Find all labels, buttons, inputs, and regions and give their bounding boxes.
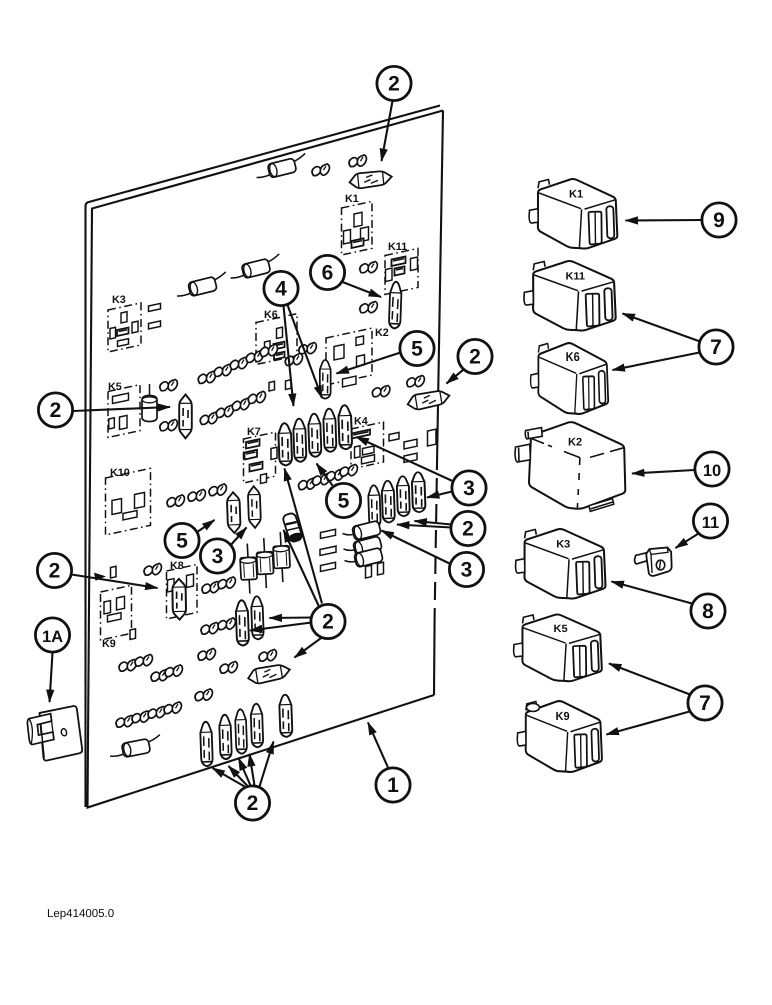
arrow item5 left to festoon bulb (197, 520, 215, 533)
svg-text:K3: K3 (556, 539, 570, 551)
svg-text:2: 2 (49, 560, 61, 583)
relay socket outline K4 on board (351, 416, 384, 470)
arrow item2 mid to long bulb row1-1 (285, 469, 323, 604)
relay K11 (item 7) (524, 261, 616, 331)
relay socket outline K11 on board (385, 241, 418, 295)
arrow item8 to relay K3 (612, 582, 693, 604)
svg-text:4: 4 (275, 278, 287, 301)
callout 2 at (328,621.5) (311, 604, 345, 638)
callout 9 at (719,220) (702, 203, 736, 237)
arrow item7b to relay K9 (607, 712, 690, 735)
svg-text:2: 2 (388, 73, 400, 96)
svg-text:K5: K5 (554, 624, 568, 636)
callout 7 at (716,347) (699, 330, 733, 364)
svg-text:1A: 1A (42, 628, 63, 646)
svg-text:5: 5 (411, 338, 423, 361)
festoon bulb row2-3 (397, 476, 410, 516)
callout 3 at (469,488) (452, 471, 486, 505)
arrow item2 bottom to bulb4 (250, 754, 255, 786)
callout 5 at (182,540.5) (165, 523, 199, 557)
arrow item2 left-b to K8 bulb (72, 575, 158, 589)
callout 2 at (55.5,410) (38, 393, 72, 427)
mid arrowhead on item2 left-b line (94, 573, 106, 581)
callout 7 at (705,703) (688, 686, 722, 720)
mounting clip (item 1A) (26, 706, 82, 762)
arrow item1A to clip (50, 653, 53, 703)
arrow item10 to relay K2 (632, 470, 695, 474)
relay K2 (item 10) (515, 422, 625, 511)
clip (item 11) (635, 548, 672, 576)
arrow item2 right-b to bulb row2-3 (397, 525, 452, 528)
arrow item2 left to festoon bulb (73, 407, 170, 411)
arrow item9 to relay K1 (626, 219, 702, 222)
svg-text:7: 7 (699, 692, 711, 715)
torpedo fuse right side (item 2 target) (406, 388, 451, 411)
festoon bulb pair lower-2 (251, 596, 264, 640)
relay K9 top bump (527, 704, 540, 712)
fuse holder cap near K5 (142, 384, 157, 422)
capacitor C-mid (256, 538, 275, 589)
svg-text:5: 5 (176, 530, 188, 553)
svg-text:K1: K1 (345, 193, 359, 205)
callout 11 at (710.5,521) (693, 504, 727, 538)
board right edge upper segment (437, 111, 443, 453)
callout 2 at (475,356.5) (458, 339, 492, 373)
relay socket outline K1 on board (342, 193, 373, 255)
arrow item7 to relay K11 (623, 314, 701, 342)
arrow item2 top to torpedo fuse (382, 101, 393, 161)
festoon bulb bottom row-3 (235, 709, 247, 754)
svg-text:9: 9 (713, 209, 725, 232)
relay K6 (item 7) (531, 343, 609, 414)
svg-text:K8: K8 (170, 560, 184, 572)
arrow item1 to board edge (368, 723, 388, 768)
relay socket outline K5 on board (108, 381, 140, 438)
arrow item3 right to bulb row2-4 (427, 492, 452, 498)
svg-text:2: 2 (50, 399, 62, 422)
callout 3 at (466.5,569.5) (449, 552, 483, 586)
festoon bulb right of K11 (item 6 target) (389, 282, 402, 329)
festoon bulb near K10 (item 3 target) (248, 486, 261, 528)
svg-text:2: 2 (469, 346, 481, 369)
festoon bulb row1-2 (293, 419, 306, 463)
board right edge lower segment (433, 618, 436, 695)
board right edge dashed middle segment (435, 452, 438, 618)
callout 10 at (712,469) (695, 452, 729, 486)
arrow item2 bottom to bulb1 (213, 768, 245, 787)
festoon bulb row2-2 (382, 480, 395, 522)
relay socket outline K10 on board (106, 467, 151, 535)
svg-text:1: 1 (387, 774, 399, 797)
printed circuit board (item 1) outer edge (thickness) (86, 106, 441, 808)
spade terminals scattered on board (115, 155, 426, 729)
callout 4 at (281,288.5) (264, 271, 298, 305)
arrow item4 to bulb row1-4 (288, 305, 323, 398)
arrow item4 to bulb row1-2 (284, 306, 294, 406)
svg-text:K1: K1 (569, 189, 583, 201)
arrow item5 mid to bulb row1-4 (317, 464, 333, 486)
relay socket outline K9 on board (101, 585, 132, 650)
callout 2 at (394,83.5) (377, 66, 411, 100)
svg-text:K6: K6 (566, 350, 580, 364)
relay socket outline K7 on board (244, 426, 276, 484)
arrow item6 to festoon bulb (340, 281, 381, 297)
callout 8 at (708,611) (691, 594, 725, 628)
relay K5 (item 7b) (514, 615, 602, 682)
svg-text:K10: K10 (110, 467, 130, 479)
axial resistor mid-left B (228, 254, 283, 282)
arrow item2 bottom to bulb2 (229, 766, 248, 786)
capacitor C-left (239, 543, 258, 594)
festoon bulb left of K5 (item 2 target) (179, 395, 192, 439)
arrow item2 right-b to bulb row2-4 (415, 521, 452, 525)
svg-text:10: 10 (703, 462, 721, 480)
solder pads on board (111, 303, 437, 639)
svg-text:3: 3 (461, 559, 473, 582)
arrow item2 mid to bulb lower-2 (250, 623, 312, 631)
capacitor C-right (272, 532, 291, 583)
festoon bulb row1-4 (323, 409, 336, 453)
relay socket outline K8 on board (167, 560, 198, 619)
svg-text:2: 2 (462, 518, 474, 541)
relay K1 (item 9) (529, 179, 617, 249)
callout 1A at (52.5,635) (35, 618, 69, 652)
svg-text:2: 2 (247, 792, 259, 815)
festoon bulb row2-1 (368, 485, 381, 528)
svg-text:K11: K11 (565, 271, 585, 283)
arrow item7 to relay K6 (613, 353, 700, 371)
callout 2 at (54.5,570.5) (37, 553, 71, 587)
callout 2 at (468,528.5) (451, 511, 485, 545)
svg-text:5: 5 (338, 490, 350, 513)
svg-text:2: 2 (322, 611, 334, 634)
fuse holder (dark, angled) (282, 512, 303, 543)
svg-text:Lep414005.0: Lep414005.0 (47, 908, 114, 920)
axial resistor top-left (254, 153, 309, 181)
arrow item2 right to torpedo fuse (447, 370, 464, 384)
arrow item2 bottom to bulb5 (260, 742, 274, 787)
callout 3 at (217.5,556) (200, 539, 234, 573)
svg-text:K7: K7 (247, 426, 261, 438)
axial resistor mid-left A (174, 272, 229, 300)
festoon bulb pair lower-1 (236, 600, 250, 646)
arrow item7b to relay K5 (609, 664, 690, 695)
svg-text:7: 7 (710, 336, 722, 359)
svg-text:3: 3 (212, 545, 224, 568)
torpedo fuse top of board (item 2 target) (349, 169, 393, 189)
diode stack (three axial parts) (343, 520, 384, 567)
relay K9 (item 7b) (517, 701, 602, 772)
svg-text:11: 11 (702, 514, 719, 532)
festoon bulb near K10 (item 5 target) (227, 492, 241, 533)
festoon bulb row1-1 (278, 423, 292, 466)
callout 5 at (343.5,500.5) (326, 483, 360, 517)
festoon bulb row1-5 (338, 405, 352, 449)
printed circuit board face outline (88, 111, 444, 808)
axial resistor bottom-left (108, 735, 163, 760)
relay socket outline K3 on board (108, 294, 141, 352)
callout 5 at (417,348.5) (400, 331, 434, 365)
svg-text:K4: K4 (354, 416, 368, 428)
svg-text:K9: K9 (556, 711, 570, 723)
relay socket outline K6 on board (256, 309, 297, 365)
svg-text:K3: K3 (112, 294, 126, 306)
svg-text:8: 8 (702, 600, 714, 623)
arrow item3 left to festoon bulb (230, 528, 247, 547)
festoon bulb bottom row-5 (279, 695, 292, 738)
callout 6 at (327.5,272.5) (310, 255, 344, 289)
arrow item5 to bulb in K2 (337, 353, 401, 374)
svg-text:K6: K6 (264, 309, 278, 321)
festoon bulb bottom row-2 (219, 715, 232, 760)
callout 2 at (252.5,803) (235, 786, 269, 820)
relay socket outline K2 on board (326, 327, 389, 387)
svg-text:6: 6 (322, 262, 334, 285)
svg-text:K5: K5 (108, 381, 122, 393)
arrow item2 mid to torpedo bottom (295, 637, 323, 658)
svg-text:3: 3 (463, 477, 475, 500)
arrow item2 mid to fuse holder (284, 530, 319, 606)
arrow item3 right to K4 pad (357, 437, 453, 481)
festoon bulb row2-4 (412, 472, 426, 512)
festoon bulb row1-3 (308, 414, 321, 458)
svg-text:K9: K9 (102, 638, 116, 650)
svg-text:K11: K11 (388, 241, 407, 253)
svg-text:K2: K2 (375, 327, 389, 339)
svg-text:K2: K2 (568, 437, 582, 449)
relay K3 (item 8) (516, 529, 606, 599)
festoon bulb bottom row-4 (250, 704, 263, 748)
arrow item2 mid to bulb lower-1 (270, 616, 312, 619)
callout 1 at (393,785) (376, 768, 410, 802)
arrow item2 bottom to bulb3 (239, 758, 251, 786)
torpedo fuse bottom centre (item 2 target) (247, 662, 292, 685)
festoon bulb inside K2 outline (320, 360, 331, 399)
festoon bulb in K8 (item 2 target) (172, 579, 186, 620)
arrow item3 right-b to diode stack (382, 531, 451, 565)
arrow item11 to clip 11 (676, 534, 699, 549)
festoon bulb bottom row-1 (200, 722, 213, 767)
